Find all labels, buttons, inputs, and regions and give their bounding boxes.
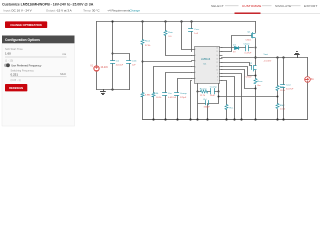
svg-text:11: 11 xyxy=(216,66,218,68)
wire comp box right stub xyxy=(218,84,220,92)
capacitor Cout xyxy=(281,85,285,88)
junction boot SW xyxy=(255,47,257,49)
svg-text:1uF: 1uF xyxy=(194,33,198,35)
resistor Ruv1 xyxy=(141,40,144,45)
svg-text:9: 9 xyxy=(217,73,218,75)
svg-text:-15 V at 3 A: -15 V at 3 A xyxy=(56,9,72,13)
svg-text:Rcs: Rcs xyxy=(230,108,235,110)
wire UVLO to IC xyxy=(143,61,192,63)
svg-text:Ruv1: Ruv1 xyxy=(145,41,151,43)
svg-text:Soft Start Time: Soft Start Time xyxy=(5,47,23,51)
capacitor Cboot xyxy=(246,46,249,51)
svg-text:1.60: 1.60 xyxy=(5,51,11,55)
svg-text:5V: 5V xyxy=(233,51,236,53)
svg-text:0.251: 0.251 xyxy=(11,72,19,76)
junction comp right xyxy=(218,91,220,93)
wire Ruv column xyxy=(142,22,144,120)
resistor Rt xyxy=(152,93,155,97)
junction rail Rvcc xyxy=(164,20,166,22)
wire boot chain xyxy=(222,47,254,49)
svg-text:(1 - 10): (1 - 10) xyxy=(5,59,13,62)
junction rail Ruv xyxy=(141,20,143,22)
svg-text:Input:: Input: xyxy=(4,9,12,13)
svg-text:1.02k: 1.02k xyxy=(280,109,286,111)
capacitor Css xyxy=(163,93,167,96)
svg-text:Rsns: Rsns xyxy=(258,81,264,83)
svg-text:15: 15 xyxy=(216,51,218,53)
svg-text:13: 13 xyxy=(216,59,218,61)
resistor Rcs xyxy=(225,105,228,110)
wire Rcs column xyxy=(222,81,227,120)
wire Rvcc column xyxy=(166,22,192,56)
svg-text:SELECT: SELECT xyxy=(211,4,224,8)
svg-text:7: 7 xyxy=(217,80,218,82)
svg-text:12: 12 xyxy=(216,62,218,64)
wire Css column xyxy=(166,73,192,120)
wire Cinb branch xyxy=(113,54,130,90)
svg-text:4: 4 xyxy=(195,66,196,68)
svg-text:Output:: Output: xyxy=(46,9,56,13)
junction Cin mid xyxy=(112,53,114,55)
svg-text:12.7k: 12.7k xyxy=(200,95,206,97)
svg-text:97.6k: 97.6k xyxy=(145,45,151,47)
svg-text:3: 3 xyxy=(195,61,196,63)
svg-text:1: 1 xyxy=(195,49,196,51)
svg-text:4x10uF: 4x10uF xyxy=(116,65,124,67)
wire SW pin xyxy=(222,57,256,59)
wire Cramp column xyxy=(178,79,192,120)
svg-text:Change: Change xyxy=(130,9,141,13)
svg-text:D1: D1 xyxy=(233,44,237,46)
svg-text:3.0: 3.0 xyxy=(168,36,172,38)
resistor Rcomp xyxy=(201,90,208,93)
svg-text:DC 16 V - 24 V: DC 16 V - 24 V xyxy=(12,9,32,13)
svg-text:Rt: Rt xyxy=(156,92,159,95)
svg-text:+4 Requirements: +4 Requirements xyxy=(107,9,130,13)
svg-text:Use Preferred Frequency: Use Preferred Frequency xyxy=(11,63,42,67)
wire VCC stair 1 xyxy=(222,74,242,120)
capacitor Cinb xyxy=(127,61,131,64)
svg-text:18.2k: 18.2k xyxy=(156,97,162,99)
ground input xyxy=(101,90,106,95)
svg-text:SIMULATE: SIMULATE xyxy=(275,4,291,8)
svg-text:0.47uF: 0.47uF xyxy=(245,52,252,54)
svg-text:Css: Css xyxy=(168,93,173,95)
wire Vin pin column xyxy=(182,22,192,50)
svg-text:30 °C: 30 °C xyxy=(92,9,100,13)
junction Rfb top xyxy=(276,56,278,58)
svg-text:CSD2: CSD2 xyxy=(246,76,253,78)
svg-text:8: 8 xyxy=(217,77,218,79)
capacitor Cvcc xyxy=(189,29,193,32)
resistor Rvcc xyxy=(164,31,167,36)
svg-text:ms: ms xyxy=(62,52,66,56)
svg-text:Chf: Chf xyxy=(203,99,207,101)
resistor Ruv2 xyxy=(141,93,144,97)
svg-text:0.027uF: 0.027uF xyxy=(168,97,177,99)
svg-text:CUSTOMIZE: CUSTOMIZE xyxy=(242,4,261,8)
wire HO gate xyxy=(222,36,252,52)
resistor Rfb1 xyxy=(276,86,279,91)
junction SW node xyxy=(254,56,256,58)
junction Cin top xyxy=(111,20,113,22)
svg-text:Rvin: Rvin xyxy=(168,32,173,34)
svg-text:10: 10 xyxy=(216,69,218,71)
svg-text:CHANGE OPTIMIZATION: CHANGE OPTIMIZATION xyxy=(10,23,42,27)
svg-text:6: 6 xyxy=(195,78,196,80)
junction FB tap xyxy=(277,96,279,98)
ground output xyxy=(295,52,300,58)
junction rail Vin pin column xyxy=(180,20,182,22)
transistor Q1 xyxy=(252,33,256,38)
pin numbers U1 right xyxy=(216,48,218,83)
transistor Q2 xyxy=(252,66,257,72)
svg-text:-15.00V: -15.00V xyxy=(264,61,272,63)
load Iout xyxy=(305,77,311,83)
op-amp U1 LM5116 xyxy=(192,47,223,84)
wire Vin top rail xyxy=(97,21,256,23)
svg-text:Cinb: Cinb xyxy=(132,61,137,63)
svg-text:6.98k: 6.98k xyxy=(145,95,151,97)
svg-text:15nF: 15nF xyxy=(210,95,216,97)
wire GND column below IC left xyxy=(191,81,192,120)
svg-text:16: 16 xyxy=(216,48,218,50)
wire stair 2 xyxy=(222,77,235,120)
svg-text:Configuration Options: Configuration Options xyxy=(5,38,40,42)
svg-text:14: 14 xyxy=(216,55,218,57)
wire load column xyxy=(307,58,309,120)
svg-text:Customize LM5116MH/NOPB - 16: Customize LM5116MH/NOPB - 16V-24V to -15… xyxy=(2,2,94,6)
diode Dboot xyxy=(235,47,240,50)
wire CS pin xyxy=(222,67,256,76)
svg-text:16-24V: 16-24V xyxy=(101,67,109,69)
svg-text:270pF: 270pF xyxy=(180,97,187,99)
junction CSG xyxy=(255,88,257,90)
wire Cvcc column xyxy=(191,22,193,52)
wire SW bus xyxy=(255,22,257,120)
junction rail dots xyxy=(152,118,284,120)
wire output rail xyxy=(256,57,308,59)
wire feedback divider xyxy=(277,58,279,120)
svg-text:330pF: 330pF xyxy=(204,107,211,109)
voltage source V1 xyxy=(94,66,99,71)
svg-text:LM5116: LM5116 xyxy=(201,57,211,61)
junction rail Cvcc xyxy=(190,20,192,22)
junction input bottom xyxy=(111,88,113,90)
wire ground rail xyxy=(143,119,308,121)
svg-text:3A: 3A xyxy=(311,78,314,81)
capacitor Cin xyxy=(111,61,115,64)
svg-text:Rcomp: Rcomp xyxy=(200,88,208,90)
capacitor Ccomp xyxy=(211,89,215,94)
resistor Rfb2 xyxy=(276,104,279,109)
wire input bottom xyxy=(97,89,130,91)
wire LO gate xyxy=(222,63,252,66)
pin numbers U1 left xyxy=(195,49,196,80)
junction UVLO tap xyxy=(142,61,144,63)
svg-text:Ccomp: Ccomp xyxy=(210,87,218,89)
svg-text:Cboot: Cboot xyxy=(244,42,250,45)
svg-text:Cvcc: Cvcc xyxy=(194,29,200,31)
junction Cout top xyxy=(282,56,284,58)
svg-text:8m: 8m xyxy=(258,85,261,87)
svg-text:Q1: Q1 xyxy=(247,31,251,33)
wire Cin column xyxy=(112,22,114,90)
svg-text:V1: V1 xyxy=(90,66,94,68)
junction CS xyxy=(255,75,257,77)
resistor Rsense xyxy=(254,79,257,84)
svg-text:(0.05 - 1): (0.05 - 1) xyxy=(11,79,21,82)
svg-text:Temp:: Temp: xyxy=(83,9,91,13)
svg-text:Cramp: Cramp xyxy=(180,92,187,95)
svg-text:2: 2 xyxy=(195,55,196,57)
wire Cout column xyxy=(283,58,285,120)
svg-text:11.8k: 11.8k xyxy=(280,90,286,92)
svg-text:5: 5 xyxy=(195,72,196,74)
wire RT column xyxy=(154,67,192,120)
junction FB box xyxy=(218,96,220,98)
wire comp box left stub xyxy=(197,84,199,92)
capacitor Chf xyxy=(206,101,209,105)
svg-text:1uF: 1uF xyxy=(132,65,136,67)
wire FB line xyxy=(219,96,278,98)
svg-text:EXPORT: EXPORT xyxy=(304,4,317,8)
svg-text:Cin: Cin xyxy=(116,61,120,63)
svg-text:Cout: Cout xyxy=(286,83,291,86)
svg-text:Rfb2: Rfb2 xyxy=(280,105,285,107)
junction comp left xyxy=(197,91,199,93)
svg-text:CSD1: CSD1 xyxy=(245,40,252,42)
svg-text:Vout: Vout xyxy=(264,53,269,56)
svg-text:REDESIGN: REDESIGN xyxy=(9,86,23,90)
wire CSG pin xyxy=(222,70,256,89)
svg-text:MHz: MHz xyxy=(60,72,66,76)
wire comp box outline xyxy=(198,92,219,120)
svg-text:3x47uF: 3x47uF xyxy=(286,89,294,91)
wire input source branch left xyxy=(96,22,98,90)
capacitor Cramp xyxy=(175,93,179,96)
